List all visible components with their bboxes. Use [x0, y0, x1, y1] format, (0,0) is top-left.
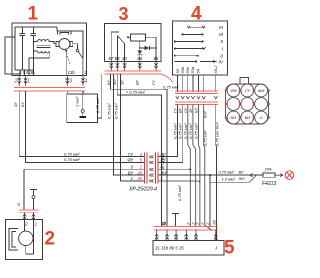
wires to pins 5 5 5 3b — [20, 70, 29, 76]
pump motor circle — [19, 231, 33, 245]
row5 merge to 54 wire — [158, 181, 200, 184]
brush right — [70, 41, 73, 46]
svg-text:О: О — [260, 115, 263, 120]
svg-text:0,75 мм²: 0,75 мм² — [64, 151, 80, 156]
svg-text:КУ: КУ — [20, 102, 25, 107]
arrows below box 1 left — [18, 76, 85, 86]
contact 88 wire — [116, 36, 118, 62]
coil bottom wire to 86 — [139, 41, 141, 62]
svg-text:54-2: 54-2 — [213, 65, 218, 74]
wire left pin exit — [5, 37, 20, 74]
wire L1 to cap rail — [49, 42, 56, 44]
svg-text:ЗУ: ЗУ — [188, 108, 193, 113]
svg-text:0,75 мм²: 0,75 мм² — [64, 157, 80, 162]
diode D2 horizontal — [140, 46, 156, 50]
switch contact S1 — [76, 49, 79, 52]
wire 53a down — [193, 105, 196, 227]
row IV — [175, 61, 217, 63]
contact dots — [174, 33, 204, 62]
wire 88 lower horizontal to box5 left — [117, 74, 161, 227]
wire right brush to switch — [73, 44, 78, 49]
rotated wire labels above box5 — [185, 219, 216, 225]
svg-text:1: 1 — [131, 176, 133, 181]
red pin arrows — [225, 89, 270, 119]
coil K1 — [131, 34, 146, 41]
svg-text:ЖУ: ЖУ — [160, 170, 169, 175]
wire loom down to row4 — [114, 74, 145, 175]
svg-text:30: 30 — [122, 56, 127, 61]
wire 54 down to box5 — [199, 105, 200, 227]
connector pins row 2 — [227, 98, 240, 111]
coil right wire to 85 — [145, 37, 156, 61]
svg-text:0,75 мм²: 0,75 мм² — [177, 185, 182, 201]
wire top rail — [15, 27, 57, 70]
svg-text:4: 4 — [85, 78, 88, 84]
svg-text:13b: 13b — [68, 70, 76, 75]
connector tab — [240, 78, 249, 85]
row3 right extension — [158, 168, 190, 170]
red leader to 0,75 label — [161, 74, 173, 83]
svg-text:5 5 5 3b: 5 5 5 3b — [19, 70, 35, 75]
svg-text:20А: 20А — [264, 167, 272, 172]
svg-text:3: 3 — [69, 78, 72, 84]
pump box outline — [6, 220, 43, 260]
svg-text:0,75 мм²: 0,75 мм² — [107, 103, 112, 119]
svg-text:5: 5 — [224, 238, 235, 259]
ground G1 — [82, 94, 84, 116]
ground G3 — [172, 214, 179, 227]
junction dot branch — [209, 174, 211, 176]
pin stubs — [178, 75, 216, 92]
svg-text:0,75 мм²: 0,75 мм² — [188, 123, 193, 139]
svg-text:1: 1 — [28, 3, 39, 24]
svg-text:0,75 мм²: 0,75 мм² — [160, 153, 165, 169]
arrows below relay — [110, 61, 158, 70]
svg-text:ЖИ: ЖИ — [257, 88, 265, 93]
connector body — [226, 84, 269, 124]
svg-text:ЖУ: ЖУ — [112, 78, 117, 86]
svg-text:3: 3 — [119, 4, 129, 24]
red loom bus below relay — [105, 71, 161, 74]
red loom bus B below box4 — [175, 102, 218, 105]
red loom bus A below box4 — [175, 91, 218, 94]
wire 54e down to loom 5 — [204, 105, 212, 231]
switch pin labels rotated — [175, 65, 218, 74]
right labels — [160, 152, 169, 181]
pin cavity labels — [230, 88, 264, 120]
svg-text:ЖУ: ЖУ — [238, 176, 246, 181]
svg-text:ФИ: ФИ — [230, 88, 236, 93]
dashed link motor-switch — [65, 50, 70, 66]
svg-text:ГУ: ГУ — [245, 88, 250, 93]
svg-text:ГУ: ГУ — [151, 80, 156, 85]
row4 through to fuse — [158, 174, 250, 176]
wire bus1 to row2 — [26, 91, 145, 162]
svg-text:КУ: КУ — [194, 108, 199, 113]
capacitor C2 — [31, 33, 37, 75]
contact blade — [117, 36, 124, 44]
wire row3 to pump box 2 — [23, 169, 25, 210]
row I — [175, 47, 206, 49]
junction dots — [139, 47, 141, 49]
svg-text:БИ: БИ — [245, 115, 251, 120]
svg-text:1: 1 — [161, 176, 163, 181]
contact 30 wire — [124, 44, 126, 62]
fuse F4213 — [250, 174, 263, 176]
inductor L2 winding 2 — [38, 51, 50, 53]
svg-text:ВУ: ВУ — [239, 170, 244, 175]
diode D1 vertical — [138, 51, 142, 56]
red loom bus above box2 — [19, 210, 39, 212]
svg-text:88: 88 — [115, 56, 120, 61]
color labels below relay bus — [106, 78, 156, 86]
red loom bus below box 1 — [14, 88, 85, 91]
svg-text:53a: 53a — [190, 66, 195, 73]
red connector bars — [144, 153, 158, 184]
switch box outline — [173, 21, 228, 75]
screw circle — [163, 222, 166, 225]
branch riser to 1,5 wire — [210, 175, 250, 226]
wire motor down to pin 13b — [65, 49, 68, 75]
svg-text:0,75 мм²: 0,75 мм² — [194, 123, 199, 139]
svg-text:F4213: F4213 — [262, 181, 276, 187]
svg-text:КчУ: КчУ — [202, 111, 207, 118]
0,75 labels on box4 wires — [173, 122, 220, 146]
wire L2 ends — [29, 51, 49, 70]
converge arrows — [250, 173, 257, 182]
pin labels 87 88 30 86 85 — [109, 56, 159, 61]
svg-text:87: 87 — [109, 56, 114, 61]
arrows between buses — [176, 96, 218, 99]
svg-text:28: 28 — [136, 176, 142, 181]
svg-text:1,5 мм²: 1,5 мм² — [222, 177, 236, 182]
svg-text:0,75 мм²: 0,75 мм² — [95, 97, 100, 113]
svg-text:0,75 мм² КчУ: 0,75 мм² КчУ — [214, 122, 219, 146]
svg-text:VI: VI — [218, 25, 223, 31]
connector pins row 3 — [227, 111, 240, 124]
motor M armature — [59, 39, 70, 50]
wire 54-2 down to box5 — [215, 105, 218, 241]
ground enclosure below box1 — [67, 94, 98, 122]
wire caps lower rail — [33, 41, 37, 43]
svg-text:1 мм²: 1 мм² — [75, 96, 80, 107]
wire pin3 to gnd box — [82, 91, 84, 94]
svg-text:IV: IV — [218, 60, 223, 66]
junction dot row3 — [189, 168, 191, 170]
pump wires — [25, 220, 34, 254]
brush left — [56, 41, 59, 46]
left labels — [127, 152, 134, 181]
row III — [183, 33, 203, 35]
svg-text:КИ: КИ — [231, 115, 236, 120]
svg-text:1: 1 — [27, 79, 30, 85]
svg-text:ВУ: ВУ — [135, 80, 140, 85]
svg-text:28: 28 — [136, 170, 142, 175]
wire inner left riser — [12, 37, 34, 70]
wire 87 down right to box5 — [111, 74, 168, 227]
inductor L1 winding 1 — [38, 40, 50, 42]
svg-text:2: 2 — [45, 228, 56, 249]
ground G2 — [30, 190, 37, 211]
contact 87 wire — [111, 32, 119, 61]
svg-text:III: III — [219, 32, 224, 38]
svg-text:86: 86 — [137, 56, 142, 61]
svg-text:ЗУ: ЗУ — [13, 102, 18, 107]
svg-text:2: 2 — [13, 79, 17, 85]
arrows into box5 — [155, 230, 218, 241]
svg-text:0: 0 — [220, 53, 223, 59]
connector pins row 1 — [227, 84, 267, 124]
svg-text:2b: 2b — [212, 219, 217, 225]
svg-text:31 31b 86 5 15: 31 31b 86 5 15 — [155, 246, 184, 251]
row 0 — [175, 55, 198, 57]
wire bus1 to row1 — [19, 91, 144, 156]
commutator arc band — [57, 31, 71, 35]
row VI — [187, 26, 205, 28]
box U1 outline — [12, 23, 87, 76]
wire top right link — [71, 31, 83, 58]
wire ground box to loom — [98, 74, 102, 118]
svg-text:0,75 мм²: 0,75 мм² — [218, 170, 234, 175]
capacitor C1 — [20, 33, 26, 70]
indicator lamp — [285, 171, 294, 180]
inductor core — [37, 45, 51, 47]
red loom bus above box5 — [154, 227, 218, 231]
wire loom down to row5 — [121, 74, 145, 181]
coil armature arrow — [127, 36, 131, 38]
chevrons — [149, 155, 153, 182]
svg-text:О: О — [16, 203, 21, 206]
connector pins row 1 — [227, 84, 240, 97]
color labels below bus B — [173, 107, 208, 118]
svg-text:0,75 мм²: 0,75 мм² — [163, 85, 179, 90]
position labels — [218, 25, 223, 66]
pump bracket — [9, 229, 18, 251]
arrows into box2 — [23, 212, 35, 220]
red wire numbers — [136, 152, 142, 181]
wire color labels below bus1 — [13, 102, 25, 107]
svg-text:0,75 мм²: 0,75 мм² — [202, 130, 207, 146]
row II — [175, 41, 203, 43]
box5 outline — [153, 241, 224, 255]
arrows below box 1 right — [66, 76, 69, 86]
relay K1 outline — [105, 23, 161, 61]
svg-text:1: 1 — [35, 222, 37, 227]
wire 53b to row2 — [158, 105, 183, 163]
svg-text:≈ 0,75 мм²: ≈ 0,75 мм² — [126, 90, 146, 95]
wire 53e down to box5 — [188, 105, 191, 227]
svg-text:ХР-25/229-4: ХР-25/229-4 — [128, 187, 157, 193]
svg-text:0,75 мм²: 0,75 мм² — [114, 103, 119, 119]
wire 53 to row1 — [158, 105, 178, 157]
row IV arrowhead — [213, 60, 217, 63]
svg-text:85: 85 — [154, 56, 159, 61]
svg-text:54: 54 — [196, 68, 201, 73]
wire pin13b to gnd box — [66, 91, 68, 94]
row3 from left pin — [24, 168, 144, 170]
